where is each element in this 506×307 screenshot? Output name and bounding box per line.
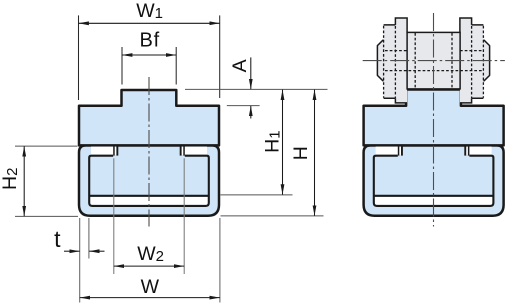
svg-text:H: H bbox=[290, 146, 312, 160]
strip top line right-fig bbox=[374, 195, 494, 197]
chain: outer plate right (gray) bbox=[472, 25, 484, 98]
groove right (white slot) bbox=[182, 147, 207, 155]
dimension t (arrows outside) bbox=[64, 250, 80, 252]
strip top line bbox=[89, 195, 209, 197]
chain: hidden line pin top bbox=[385, 50, 482, 52]
channel body right (blue) bbox=[364, 145, 504, 215]
chain: hidden line bushing left bbox=[414, 33, 416, 89]
chain: hidden line plate boundary right bbox=[471, 26, 473, 98]
dimension Bf bbox=[122, 54, 176, 56]
chain: pin end right (gray) bbox=[482, 40, 489, 81]
chain: outer plate left (gray) bbox=[384, 25, 396, 98]
bottom strip right-fig (white) bbox=[375, 197, 493, 205]
slit bars right bbox=[183, 146, 185, 155]
extension line W right bbox=[219, 218, 221, 303]
extension line H2 bottom bbox=[15, 215, 78, 217]
chain: outer plate right top/bottom bbox=[472, 25, 484, 98]
dimension W bbox=[80, 297, 220, 299]
chain: hidden line outer plate left edge bbox=[383, 26, 385, 98]
svg-text:W: W bbox=[141, 276, 160, 298]
extension line t/W left bbox=[79, 218, 81, 303]
svg-text:t: t bbox=[54, 226, 61, 252]
extension line Bf right bbox=[175, 47, 177, 85]
svg-text:Bf: Bf bbox=[139, 30, 160, 52]
extension line H2 top bbox=[15, 145, 78, 147]
slit bars left bbox=[113, 146, 115, 155]
dimension H2 bbox=[23, 146, 25, 216]
chain: inner plate left outline bbox=[395, 18, 407, 103]
center line (left figure) bbox=[148, 77, 150, 227]
dimension W1 bbox=[79, 22, 220, 24]
dimension A (arrows outside) bbox=[250, 57, 252, 89]
dimension H bbox=[314, 90, 316, 216]
center line (right figure) bbox=[433, 13, 435, 227]
chain: inner plate right outline bbox=[460, 18, 472, 103]
chain: roller (gray) bbox=[407, 32, 460, 89]
extension line block-top level (A bottom stub) bbox=[227, 105, 260, 107]
chain: inner plate right (gray) bbox=[460, 18, 472, 103]
slit bars left right-fig bbox=[398, 146, 400, 155]
svg-text:A: A bbox=[229, 59, 251, 72]
chain: inner plate left (gray) bbox=[395, 18, 407, 103]
extension line Bf left bbox=[121, 47, 123, 85]
channel body (C-rail lower part, blue) bbox=[79, 145, 219, 215]
guide block with top tab (T-profile, blue) bbox=[79, 90, 219, 145]
inner contour: groove bottoms + inner walls + strip bottom bbox=[89, 156, 209, 206]
extension line W2 right bbox=[183, 158, 185, 274]
chain: pin axis center line bbox=[363, 60, 505, 62]
chain: hidden line plate boundary left bbox=[394, 26, 396, 98]
extension line tab-top level (A/H1/H top) bbox=[185, 88, 328, 90]
groove right right-fig bbox=[466, 147, 491, 155]
slit bars right right-fig bbox=[468, 146, 470, 155]
guide block right with tab (blue) bbox=[364, 90, 504, 146]
chain: hidden line outer plate right edge bbox=[482, 26, 484, 98]
extension line t right bbox=[88, 218, 90, 259]
dimension H1 bbox=[282, 90, 284, 195]
bottom strip (white) bbox=[90, 197, 208, 205]
dimension W2 bbox=[114, 265, 184, 267]
groove left right-fig bbox=[376, 147, 401, 155]
extension line W2 left bbox=[113, 158, 115, 274]
extension line W1 right bbox=[219, 15, 221, 98]
chain: hidden line bushing right bbox=[451, 33, 453, 89]
groove left (white slot) bbox=[91, 147, 116, 155]
chain: outer plate left top/bottom bbox=[384, 25, 396, 98]
extension line H1 bottom bbox=[221, 194, 293, 196]
extension line H bottom bbox=[221, 215, 324, 217]
chain: hidden line pin bottom bbox=[385, 70, 482, 72]
extension line W1 left bbox=[78, 15, 80, 100]
chain: pin end left (gray) bbox=[377, 40, 384, 81]
inner contour right-fig bbox=[374, 156, 494, 206]
